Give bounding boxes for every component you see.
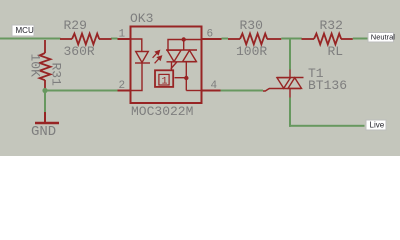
wire junction to GND [44,91,46,113]
triac T1 [263,70,304,98]
svg-text:BT136: BT136 [308,78,347,93]
svg-text:GND: GND [31,124,56,140]
svg-text:2: 2 [119,80,126,92]
svg-text:4: 4 [211,80,218,92]
resistor R29 [60,34,112,45]
junction dot gate [184,76,188,80]
svg-text:360R: 360R [64,44,95,59]
wire MCU net horizontal [0,38,118,40]
pin 1 [118,29,131,41]
wire T1 MT2 up to node [289,40,291,70]
wire R32 to Neutral [353,38,369,40]
net label Neutral [368,33,395,43]
svg-text:R30: R30 [240,18,263,33]
photo triac inside OK3 [166,40,202,91]
wire R30 to R32 with tee [281,38,302,70]
svg-text:MCU: MCU [16,26,34,35]
svg-text:Neutral: Neutral [371,33,396,42]
svg-text:R32: R32 [320,18,343,33]
LED inside OK3 [131,39,150,91]
svg-text:RL: RL [328,44,344,59]
ground GND [31,112,59,140]
wire pin6 to R30 [222,38,229,40]
junction node at R31/GND/pin2 [42,88,47,93]
resistor R32 [302,34,353,45]
net label MCU [12,25,34,36]
optocoupler U1 OK3 box [131,27,202,104]
pin 6 [202,29,222,41]
svg-text:1: 1 [162,77,168,88]
wire pin4 to T1 gate [221,90,264,92]
svg-text:1: 1 [119,29,126,41]
svg-text:6: 6 [207,29,214,41]
light arrows [153,51,162,64]
pin 2 [118,80,131,92]
resistor R31 [40,40,51,90]
svg-text:MOC3022M: MOC3022M [131,104,193,119]
wire junction to pin2 [45,90,118,92]
junction dot MT2 [182,37,186,41]
svg-text:10K: 10K [28,54,43,78]
wire T1 MT1 to Live [289,98,365,127]
svg-text:R29: R29 [64,18,87,33]
svg-text:100R: 100R [236,44,267,59]
pin 4 [202,80,221,92]
svg-text:R31: R31 [49,63,64,87]
net label Live [366,120,386,130]
svg-text:Live: Live [370,121,385,130]
pin1 marker box [155,70,173,87]
svg-text:OK3: OK3 [130,11,153,26]
resistor R30 [228,34,281,45]
